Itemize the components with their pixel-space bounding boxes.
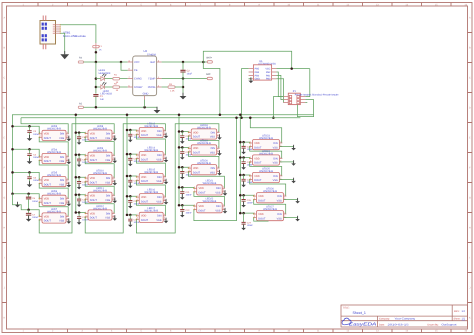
svg-text:DIN: DIN bbox=[157, 176, 162, 179]
LED driver LED20 WS2812B bbox=[188, 165, 220, 175]
svg-text:DOUT: DOUT bbox=[141, 134, 149, 137]
svg-text:VSS: VSS bbox=[273, 162, 278, 165]
svg-text:100nF: 100nF bbox=[247, 224, 254, 227]
junction C2 bottom net bbox=[182, 77, 185, 80]
wire F1 to VCC node bbox=[95, 49, 97, 62]
wire LED20 DOUT chain bbox=[188, 172, 224, 189]
LED driver LED7 WS2812B bbox=[39, 213, 69, 223]
svg-text:VDD: VDD bbox=[199, 205, 204, 208]
svg-text:1: 1 bbox=[250, 173, 251, 176]
junction rail LED8 bbox=[75, 131, 78, 134]
svg-text:VSS: VSS bbox=[215, 209, 220, 212]
connector P1 female header bbox=[283, 93, 305, 104]
wire LED24 VSS bbox=[280, 162, 294, 164]
svg-text:VSS: VSS bbox=[156, 219, 161, 222]
wire LED25 VSS bbox=[280, 179, 294, 181]
wire C9 upper bbox=[78, 155, 80, 159]
svg-text:VSS: VSS bbox=[59, 202, 64, 205]
junction rail LED4 bbox=[11, 148, 14, 151]
wire C25 lower bbox=[243, 181, 245, 185]
U2 pins right bbox=[145, 62, 162, 100]
wire PB0 to P1 bbox=[276, 79, 283, 103]
ground (LED16) bbox=[164, 199, 169, 205]
wire C13 lower bbox=[129, 136, 131, 140]
LED driver LED3 WS2812B bbox=[39, 130, 69, 140]
svg-text:2: 2 bbox=[217, 149, 218, 152]
svg-text:4: 4 bbox=[217, 166, 218, 169]
wire C23 upper bbox=[243, 142, 245, 146]
svg-text:DOUT: DOUT bbox=[44, 137, 52, 140]
svg-text:1: 1 bbox=[194, 186, 195, 189]
wire LED4 VSS bbox=[68, 160, 70, 162]
wire VDD feed LED13 bbox=[127, 129, 136, 132]
svg-text:DIN: DIN bbox=[277, 195, 282, 198]
svg-text:1: 1 bbox=[250, 156, 251, 159]
junction cap C17 bbox=[129, 214, 132, 217]
wire C9 lower bbox=[78, 161, 80, 165]
svg-text:DOUT: DOUT bbox=[254, 146, 262, 149]
svg-text:Sheet:: Sheet: bbox=[454, 318, 461, 321]
svg-text:1: 1 bbox=[85, 176, 86, 179]
svg-text:2: 2 bbox=[113, 197, 114, 200]
wire LED16 DOUT chain bbox=[136, 201, 165, 216]
ground (C23) bbox=[241, 149, 246, 155]
svg-text:2: 2 bbox=[164, 178, 165, 181]
svg-text:1: 1 bbox=[137, 213, 138, 216]
svg-text:2: 2 bbox=[67, 135, 68, 138]
wire LED15 VSS bbox=[165, 180, 167, 182]
svg-text:VSS: VSS bbox=[156, 134, 161, 137]
svg-text:1: 1 bbox=[85, 153, 86, 156]
wire C23 lower bbox=[243, 148, 245, 152]
ground (LED24) bbox=[291, 160, 296, 166]
svg-text:VDD: VDD bbox=[44, 179, 49, 182]
svg-text:3: 3 bbox=[194, 207, 195, 210]
svg-text:G: G bbox=[3, 197, 5, 200]
wire C22 lower bbox=[181, 211, 183, 215]
junction rail LED9 bbox=[75, 154, 78, 157]
svg-text:WS2812B-B: WS2812B-B bbox=[197, 142, 211, 145]
ground (C4) bbox=[27, 158, 33, 164]
wire U1 VCC node bbox=[276, 68, 309, 70]
wire VDD feed LED10 bbox=[76, 176, 85, 179]
wire C10 lower bbox=[78, 183, 80, 187]
svg-text:DIN: DIN bbox=[106, 177, 111, 180]
svg-text:D: D bbox=[469, 107, 471, 110]
wire VDD feed LED5 bbox=[13, 172, 40, 180]
wire C20 lower bbox=[181, 173, 183, 177]
capacitor C5 100nF bbox=[27, 177, 31, 179]
capacitor C13 100nF bbox=[128, 134, 132, 136]
svg-text:2: 2 bbox=[113, 179, 114, 182]
svg-text:DOUT: DOUT bbox=[90, 181, 98, 184]
svg-text:OurSupport: OurSupport bbox=[442, 324, 457, 327]
ground (LED22) bbox=[223, 208, 228, 214]
svg-text:DIN: DIN bbox=[273, 142, 278, 145]
svg-text:1: 1 bbox=[137, 174, 138, 177]
LED driver LED19 WS2812B bbox=[188, 145, 220, 155]
ground (LED17) bbox=[164, 218, 169, 224]
svg-text:3: 3 bbox=[194, 189, 195, 192]
wire VDD rail y1 bbox=[12, 114, 314, 116]
svg-text:4: 4 bbox=[113, 211, 114, 214]
EasyEDA logo bbox=[342, 318, 377, 326]
wire LED15 DOUT chain bbox=[136, 180, 165, 197]
svg-text:VSS: VSS bbox=[273, 146, 278, 149]
wire U2 GND pin bbox=[144, 100, 146, 108]
svg-text:PB0: PB0 bbox=[266, 78, 271, 81]
svg-text:BAT-: BAT- bbox=[206, 73, 211, 76]
junction cap C13 bbox=[129, 129, 132, 132]
svg-text:WS2812B-B: WS2812B-B bbox=[93, 172, 107, 175]
ground (LED27) bbox=[295, 216, 300, 222]
svg-text:4: 4 bbox=[280, 140, 281, 143]
wire C4 lower bbox=[29, 156, 31, 162]
wire C3 upper bbox=[29, 126, 31, 130]
wire LED27 VSS bbox=[284, 218, 298, 220]
capacitor C3 100nF bbox=[27, 131, 31, 133]
svg-text:BAT: BAT bbox=[151, 61, 156, 64]
LED driver LED27 WS2812B bbox=[253, 211, 286, 221]
junction cap C14 bbox=[129, 153, 132, 156]
svg-text:VSS: VSS bbox=[59, 137, 64, 140]
svg-text:VCC: VCC bbox=[134, 61, 140, 64]
svg-text:VDD: VDD bbox=[44, 156, 49, 159]
wire C15 upper bbox=[129, 176, 131, 180]
wire VDD feed LED20 bbox=[179, 166, 188, 169]
svg-text:3: 3 bbox=[137, 198, 138, 201]
wire LED21 VSS bbox=[224, 192, 226, 194]
capacitor C9 100nF bbox=[77, 159, 81, 161]
svg-text:VSS: VSS bbox=[277, 217, 282, 220]
svg-text:DOUT: DOUT bbox=[254, 162, 262, 165]
svg-text:WS2812B-B: WS2812B-B bbox=[93, 150, 107, 153]
capacitor C7 100nF bbox=[26, 213, 31, 215]
svg-text:3: 3 bbox=[137, 178, 138, 181]
wire LED14 DOUT chain bbox=[136, 159, 165, 177]
LED driver LED9 WS2812B bbox=[85, 152, 115, 162]
svg-text:WS2812B-B: WS2812B-B bbox=[197, 162, 211, 165]
svg-text:VDD: VDD bbox=[193, 147, 198, 150]
junction rail LED16 bbox=[126, 195, 129, 198]
wire C5 upper bbox=[29, 172, 31, 176]
svg-text:1: 1 bbox=[39, 131, 40, 134]
svg-text:2: 2 bbox=[164, 132, 165, 135]
capacitor C23 100nF bbox=[242, 146, 246, 148]
wire LED5 VSS bbox=[68, 184, 70, 186]
wire LED25 DOUT chain bbox=[250, 179, 286, 196]
svg-text:VDD: VDD bbox=[44, 133, 49, 136]
svg-text:VDD: VDD bbox=[254, 142, 259, 145]
connector USB1 Micro-USB female bbox=[40, 16, 61, 50]
wire VDD column rail 5 bbox=[239, 115, 241, 213]
junction col5 feed bbox=[249, 117, 252, 120]
svg-text:4: 4 bbox=[113, 176, 114, 179]
wire VDD feed LED3 bbox=[13, 126, 40, 134]
ground (C3) bbox=[27, 135, 33, 141]
wire C26 upper bbox=[243, 195, 245, 199]
wire U2 TEMP to BAT- bbox=[162, 78, 207, 80]
svg-text:DIN: DIN bbox=[211, 147, 216, 150]
junction cap C19 bbox=[181, 146, 184, 149]
svg-text:1.0: 1.0 bbox=[462, 310, 466, 313]
junction VCC/LED column bbox=[95, 61, 98, 64]
ground (col1 lower) bbox=[15, 202, 20, 208]
wire USB1 GND bbox=[61, 33, 65, 54]
svg-text:DIN: DIN bbox=[106, 132, 111, 135]
wire C20 upper bbox=[181, 167, 183, 171]
wire C27 lower bbox=[243, 224, 245, 228]
junction cap C21 bbox=[181, 186, 184, 189]
svg-text:DOUT: DOUT bbox=[44, 160, 52, 163]
svg-text:DIN: DIN bbox=[60, 156, 65, 159]
ground (LED9) bbox=[113, 158, 118, 164]
junction rail LED25 bbox=[239, 174, 242, 177]
junction cap C8 bbox=[78, 131, 81, 134]
wire VDD feed LED22 bbox=[179, 204, 194, 207]
svg-text:4: 4 bbox=[217, 146, 218, 149]
svg-text:WS2812B-B: WS2812B-B bbox=[203, 182, 217, 185]
svg-text:DOUT: DOUT bbox=[141, 180, 149, 183]
svg-text:CE: CE bbox=[134, 69, 138, 72]
wire VDD feed LED7 bbox=[29, 210, 40, 217]
LED LED1 bbox=[96, 74, 106, 81]
wire P1 pin to data rail bbox=[273, 97, 283, 118]
svg-text:DOUT: DOUT bbox=[199, 209, 207, 212]
wire VDD column rail 2 bbox=[75, 115, 77, 213]
capacitor C26 100nF bbox=[242, 200, 246, 202]
wire LED23 DOUT chain bbox=[250, 147, 282, 159]
LED driver LED18 WS2812B bbox=[188, 129, 220, 139]
svg-text:2: 2 bbox=[164, 156, 165, 159]
svg-text:3: 3 bbox=[250, 177, 251, 180]
svg-text:DOUT: DOUT bbox=[193, 136, 201, 139]
junction U1 VCC bbox=[290, 67, 293, 70]
svg-text:DOUT: DOUT bbox=[44, 220, 52, 223]
wire LED27 DOUT stub bbox=[254, 218, 269, 222]
svg-text:VSS: VSS bbox=[105, 181, 110, 184]
wire C19 lower bbox=[181, 154, 183, 158]
IC U1 ATTINY85 body bbox=[253, 65, 271, 80]
svg-text:2: 2 bbox=[67, 181, 68, 184]
wire C27 upper bbox=[243, 213, 245, 222]
svg-text:WS2812B-B: WS2812B-B bbox=[259, 137, 273, 140]
svg-text:3: 3 bbox=[39, 200, 40, 203]
wire C21 upper bbox=[181, 187, 183, 191]
svg-text:DIN: DIN bbox=[211, 167, 216, 170]
title block texts bbox=[343, 307, 461, 327]
svg-text:VDD: VDD bbox=[141, 215, 146, 218]
capacitor C8 100nF bbox=[77, 137, 81, 139]
svg-text:VDD: VDD bbox=[44, 198, 49, 201]
svg-text:VDD: VDD bbox=[254, 157, 259, 160]
ground (LED6) bbox=[67, 201, 72, 207]
svg-text:WS2812B-B: WS2812B-B bbox=[263, 190, 277, 193]
wire col1 lower zigzag bbox=[13, 194, 29, 210]
junction rail LED20 bbox=[178, 166, 181, 169]
svg-text:1: 1 bbox=[254, 211, 255, 214]
ground (LED23) bbox=[291, 145, 296, 151]
svg-text:3: 3 bbox=[254, 215, 255, 218]
wire LED3 DOUT chain bbox=[39, 137, 68, 157]
svg-text:2: 2 bbox=[164, 198, 165, 201]
wire LED9 DOUT chain bbox=[85, 159, 114, 178]
wire VDD feed LED24 bbox=[240, 157, 249, 160]
wire LED17 VSS bbox=[165, 219, 167, 221]
svg-text:VSS: VSS bbox=[105, 199, 110, 202]
svg-text:VSS: VSS bbox=[210, 152, 215, 155]
wire VDD rail col1 bbox=[12, 115, 14, 194]
wire LED13 DOUT chain bbox=[136, 134, 165, 155]
wire col2 to col3 data link bbox=[85, 124, 165, 233]
svg-text:4: 4 bbox=[113, 153, 114, 156]
svg-text:Female header1 5formfac2 Femal: Female header1 5formfac2 Female header bbox=[295, 94, 339, 97]
svg-text:3: 3 bbox=[189, 133, 190, 136]
wire C4 upper bbox=[29, 149, 31, 153]
wire C8 upper bbox=[78, 133, 80, 137]
junction cap C24 bbox=[242, 156, 245, 159]
svg-text:DIN: DIN bbox=[273, 157, 278, 160]
svg-text:VSS: VSS bbox=[156, 180, 161, 183]
wire C13 upper bbox=[129, 130, 131, 134]
svg-text:GND: GND bbox=[143, 92, 149, 95]
wire LED5 DOUT chain bbox=[39, 184, 68, 199]
wire C24 lower bbox=[243, 164, 245, 168]
wire C11 lower bbox=[78, 201, 80, 205]
wire LED16 VSS bbox=[165, 201, 167, 203]
junction rail LED17 bbox=[126, 214, 129, 217]
LED driver LED14 WS2812B bbox=[136, 152, 166, 162]
svg-text:DOUT: DOUT bbox=[90, 159, 98, 162]
svg-text:VSS: VSS bbox=[59, 160, 64, 163]
svg-text:4: 4 bbox=[280, 173, 281, 176]
wire VDD feed LED27 bbox=[240, 212, 253, 215]
wire VDD feed LED25 bbox=[240, 174, 249, 177]
svg-text:100nF: 100nF bbox=[186, 194, 193, 197]
wire LED4 DOUT chain bbox=[39, 160, 68, 180]
junction data rail bbox=[240, 117, 243, 120]
ground (LED3) bbox=[67, 136, 72, 142]
svg-text:100nF: 100nF bbox=[32, 200, 39, 203]
svg-text:CHRG: CHRG bbox=[134, 78, 142, 81]
svg-text:2: 2 bbox=[67, 200, 68, 203]
wire C8 lower bbox=[78, 139, 80, 143]
junction cap C22 bbox=[181, 204, 184, 207]
ground (C13) bbox=[128, 137, 133, 143]
junction rail LED10 bbox=[75, 176, 78, 179]
svg-text:3: 3 bbox=[137, 156, 138, 159]
ground (LED20) bbox=[217, 170, 222, 176]
ground (C25) bbox=[241, 182, 246, 188]
svg-text:1/1: 1/1 bbox=[462, 318, 466, 321]
ground (C11) bbox=[77, 201, 82, 207]
ground (C12) bbox=[77, 219, 82, 225]
wire VDD feed LED12 bbox=[76, 212, 85, 215]
svg-text:1: 1 bbox=[85, 131, 86, 134]
wire LED14 VSS bbox=[165, 159, 167, 161]
capacitor C18 100nF bbox=[180, 136, 184, 138]
wire LED6 VSS bbox=[68, 202, 70, 204]
wire LED19 DOUT chain bbox=[188, 152, 219, 168]
junction R3/C2 bbox=[182, 86, 185, 89]
junction VDD rail col4 bbox=[178, 114, 181, 117]
U1 pin names bbox=[255, 68, 271, 81]
svg-text:2: 2 bbox=[113, 134, 114, 137]
svg-text:1: 1 bbox=[39, 177, 40, 180]
svg-text:DOUT: DOUT bbox=[44, 183, 52, 186]
wire LED7 VSS bbox=[68, 220, 70, 222]
junction VDD rail feed bbox=[219, 114, 222, 117]
junction cap C9 bbox=[78, 154, 81, 157]
svg-text:2: 2 bbox=[217, 169, 218, 172]
wire LED18 VSS bbox=[219, 136, 221, 138]
LED driver LED25 WS2812B bbox=[249, 172, 282, 182]
ground (C7) bbox=[26, 216, 32, 222]
LED LED2 bbox=[96, 82, 106, 89]
junction C1/GND net bbox=[95, 106, 98, 109]
junction col4 return bbox=[235, 117, 238, 120]
capacitor C27 100nF bbox=[242, 222, 246, 224]
junction cap C20 bbox=[181, 166, 184, 169]
svg-text:1: 1 bbox=[250, 140, 251, 143]
resistor R5 bbox=[78, 61, 83, 63]
junction cap C5 bbox=[28, 171, 31, 174]
svg-text:Company:: Company: bbox=[379, 317, 390, 320]
wire LED19 VSS bbox=[219, 152, 221, 154]
junction cap C7 bbox=[27, 209, 30, 212]
svg-text:DIN: DIN bbox=[60, 198, 65, 201]
svg-text:VDD: VDD bbox=[193, 131, 198, 134]
LED driver LED24 WS2812B bbox=[249, 155, 282, 165]
wire col4 DOUT return to rail bbox=[194, 118, 237, 221]
wire C15 lower bbox=[129, 182, 131, 186]
svg-text:4: 4 bbox=[223, 204, 224, 207]
svg-text:G: G bbox=[469, 197, 471, 200]
svg-text:VSS: VSS bbox=[215, 192, 220, 195]
wire C14 lower bbox=[129, 160, 131, 164]
ground (C24) bbox=[241, 164, 246, 170]
junction VCC/CE tie bbox=[120, 61, 123, 64]
svg-text:DOUT: DOUT bbox=[141, 200, 149, 203]
wire LED6 DOUT chain bbox=[39, 202, 68, 216]
junction rail LED19 bbox=[178, 146, 181, 149]
wire col3 to col4 data link bbox=[136, 124, 219, 233]
wire LED12 VSS bbox=[114, 217, 116, 219]
junction cap C27 bbox=[242, 212, 245, 215]
junction rail LED18 bbox=[178, 130, 181, 133]
svg-text:WS2812B-B: WS2812B-B bbox=[47, 210, 61, 213]
wire C24 upper bbox=[243, 158, 245, 162]
U2 pin names bbox=[134, 61, 156, 95]
svg-text:VDD: VDD bbox=[44, 215, 49, 218]
svg-text:Drawn By:: Drawn By: bbox=[428, 324, 439, 327]
ground (LED4) bbox=[67, 159, 72, 165]
wire C1 to GND net bbox=[95, 96, 97, 107]
wire VDD feed LED21 bbox=[179, 186, 194, 189]
ground (C20) bbox=[180, 174, 185, 180]
svg-text:1: 1 bbox=[189, 146, 190, 149]
junction C2 top bbox=[182, 61, 185, 64]
wire C6 lower to node bbox=[28, 199, 30, 210]
junction cap C23 bbox=[242, 141, 245, 144]
wire LED13 VSS bbox=[165, 134, 167, 136]
wire LED bias vertical bbox=[95, 62, 97, 94]
svg-text:VDD: VDD bbox=[141, 130, 146, 133]
LED driver LED15 WS2812B bbox=[136, 173, 166, 183]
svg-text:DOUT: DOUT bbox=[90, 217, 98, 220]
ground (C18) bbox=[180, 138, 185, 144]
wire PB1 to P1 bbox=[276, 75, 283, 99]
